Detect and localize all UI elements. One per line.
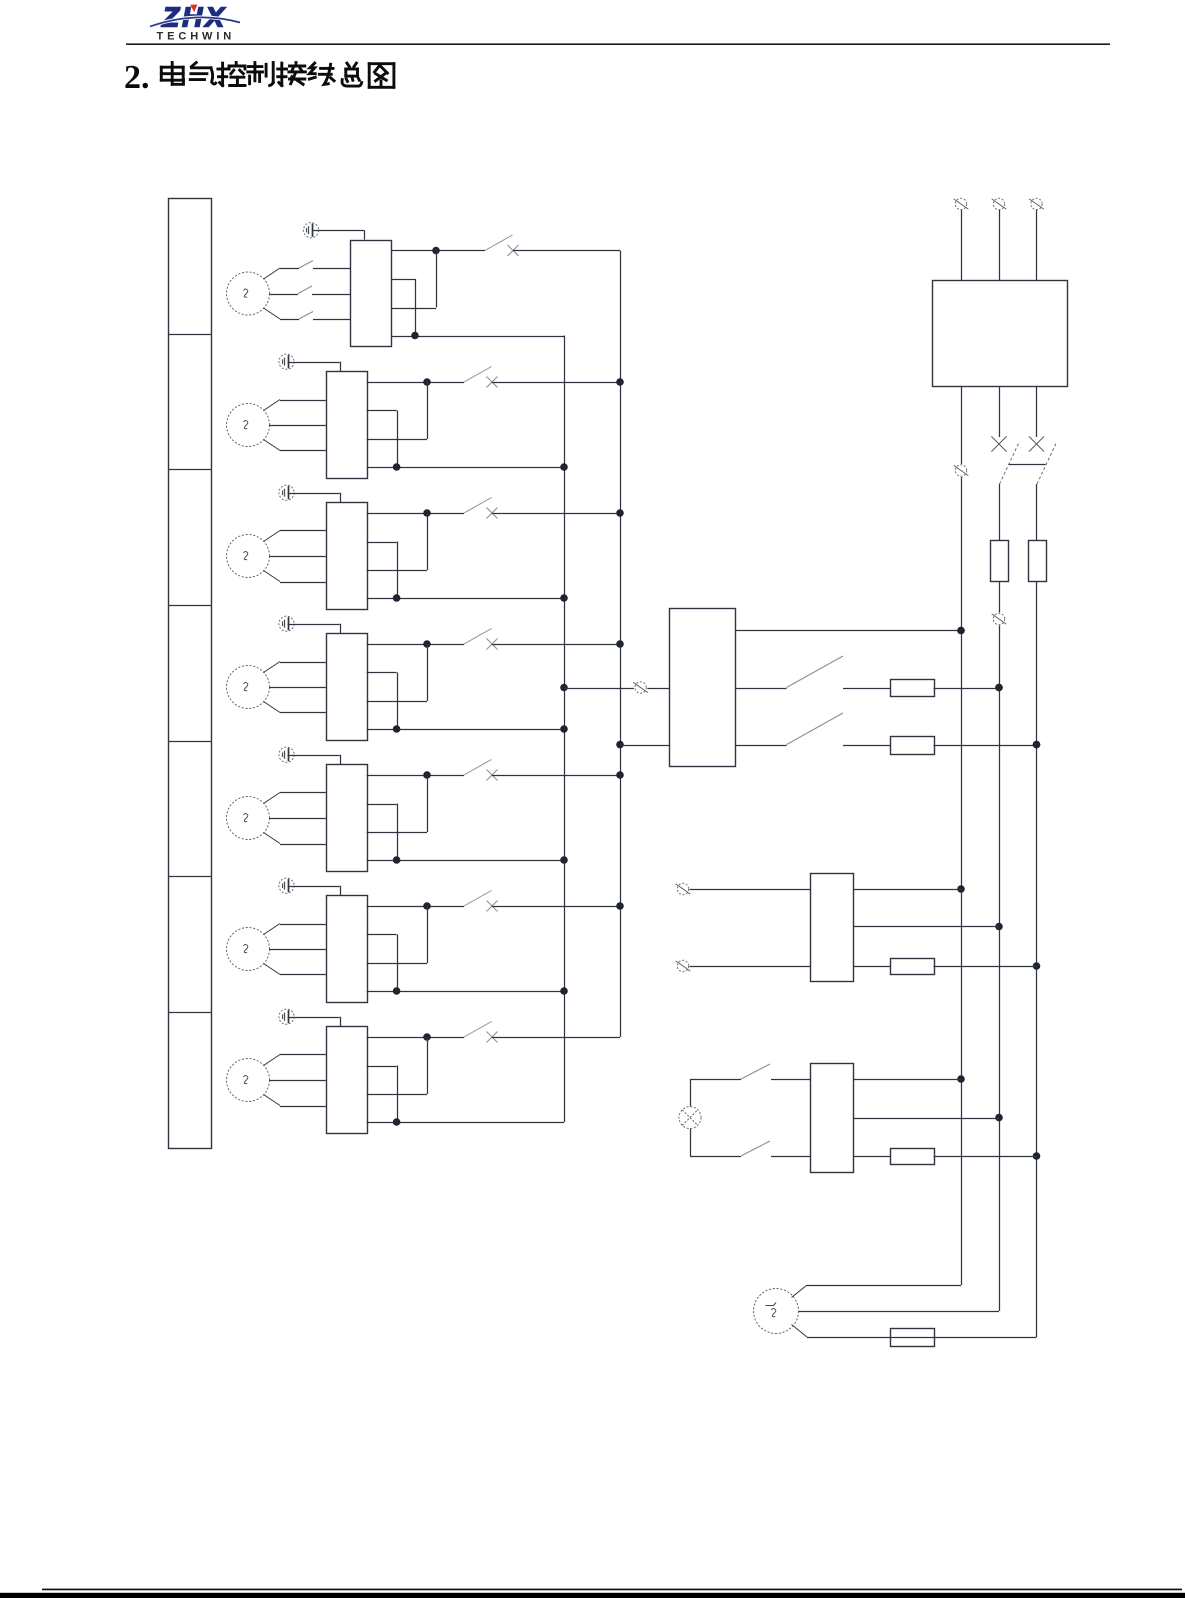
svg-text:2.: 2. xyxy=(124,59,150,96)
svg-text:TECHWIN: TECHWIN xyxy=(157,31,236,43)
